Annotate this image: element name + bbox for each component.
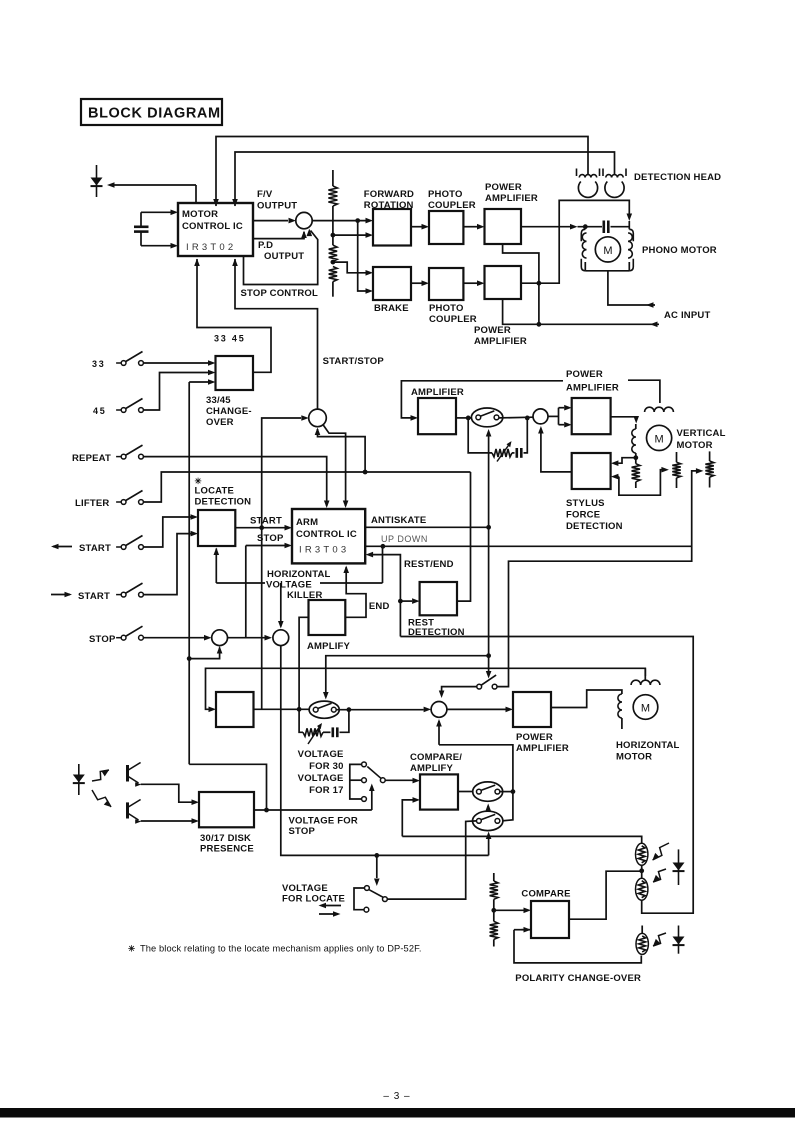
wire lifter riser bbox=[144, 472, 471, 502]
wire fwd-photo bbox=[411, 224, 429, 230]
label BRAKE bbox=[374, 303, 409, 314]
wire photo-pa1 bbox=[463, 224, 484, 230]
label PHOTO COUPLER 2 bbox=[429, 303, 477, 325]
wire PA1 bottom tap bbox=[503, 244, 539, 324]
33/45 change-over box bbox=[216, 356, 254, 390]
svg-text:END: END bbox=[369, 601, 390, 612]
switch START down bbox=[78, 583, 143, 602]
svg-text:✳: ✳ bbox=[128, 944, 136, 954]
wire brake-photo2 bbox=[411, 280, 429, 286]
label 30/17 DISK PRESENCE bbox=[200, 833, 254, 855]
wire PA1 to motor bbox=[521, 224, 602, 230]
svg-text:STOP CONTROL: STOP CONTROL bbox=[241, 288, 319, 299]
label POWER AMPLIFIER V bbox=[566, 369, 619, 394]
svg-text:BLOCK DIAGRAM: BLOCK DIAGRAM bbox=[88, 106, 221, 122]
svg-text:M: M bbox=[655, 433, 664, 445]
label POWER AMPLIFIER 1 bbox=[485, 182, 538, 204]
svg-text:PHOTO: PHOTO bbox=[429, 303, 464, 314]
label 33 45 bbox=[214, 334, 246, 344]
svg-text:CONTROL IC: CONTROL IC bbox=[182, 221, 243, 232]
junction photo chain bbox=[639, 865, 644, 880]
wire amplify input riser bbox=[299, 617, 308, 709]
label COMPARE/AMPLIFY bbox=[410, 752, 462, 774]
svg-text:33 45: 33 45 bbox=[214, 334, 246, 344]
wire detection-head B to IC bbox=[232, 152, 614, 207]
wire start riser to node bbox=[262, 415, 309, 528]
wire Q2 to disk box bbox=[141, 818, 199, 824]
label 33/45 CHANGE-OVER bbox=[206, 395, 252, 428]
wire vertical bus x189 bbox=[188, 382, 190, 764]
svg-text:POWER: POWER bbox=[566, 369, 603, 380]
wire antiskate to oval0 bbox=[323, 656, 489, 700]
svg-text:FORWARD: FORWARD bbox=[364, 189, 414, 200]
label VOLTAGE FOR 30 bbox=[298, 749, 344, 772]
wire compare2 out bbox=[569, 871, 642, 919]
30/17 disk presence box bbox=[199, 792, 254, 827]
wire SFD2 U path bbox=[611, 467, 669, 495]
svg-text:VOLTAGE FOR: VOLTAGE FOR bbox=[289, 816, 358, 827]
svg-text:ANTISKATE: ANTISKATE bbox=[371, 515, 426, 526]
summing node vertical bbox=[533, 409, 548, 424]
junction lifter/startstop bbox=[363, 470, 368, 475]
svg-text:IR3T02: IR3T02 bbox=[186, 242, 236, 253]
wire oval0 out bbox=[336, 707, 431, 713]
wire P.D output bbox=[253, 231, 307, 239]
phono motor M bbox=[595, 237, 620, 262]
photo resistor PC3 bbox=[636, 933, 648, 954]
svg-text:VOLTAGE: VOLTAGE bbox=[282, 883, 328, 894]
wire switchH bbox=[477, 675, 497, 689]
bottom black bar bbox=[0, 1108, 795, 1118]
vertical motor left coil bbox=[632, 424, 636, 458]
wire UP DOWN bbox=[365, 544, 692, 549]
detection head coil 2 bbox=[603, 169, 626, 198]
wire rest input bbox=[400, 598, 419, 604]
label UP DOWN bbox=[381, 534, 428, 544]
wire to oval2 bottom bbox=[486, 832, 492, 856]
svg-text:FORCE: FORCE bbox=[566, 510, 600, 521]
wire switchH right bbox=[497, 468, 703, 686]
selector lever bbox=[367, 767, 381, 779]
wire PC3 top stub bbox=[641, 926, 643, 934]
svg-text:F/V: F/V bbox=[257, 189, 273, 200]
label FORWARD ROTATION bbox=[364, 189, 414, 211]
wire IC left lower input bbox=[141, 243, 178, 249]
locate amplifier box bbox=[216, 692, 254, 727]
rest detection box bbox=[420, 582, 457, 615]
svg-text:REPEAT: REPEAT bbox=[72, 453, 111, 464]
compare box bbox=[531, 901, 569, 938]
power amplifier 1 box bbox=[485, 209, 522, 244]
wire bus to node1 bbox=[187, 646, 223, 661]
wire compare out bbox=[458, 791, 472, 793]
svg-text:IR3T03: IR3T03 bbox=[299, 545, 349, 556]
svg-text:STOP: STOP bbox=[89, 634, 116, 645]
resistor chain R1 bbox=[328, 170, 337, 297]
light arrow 4 bbox=[653, 869, 666, 882]
svg-text:DETECTION: DETECTION bbox=[566, 521, 623, 532]
summing node F/V bbox=[296, 212, 312, 228]
horizontal motor top coil bbox=[631, 668, 660, 685]
horizontal motor M bbox=[633, 695, 658, 720]
label STOP CONTROL bbox=[241, 288, 319, 299]
svg-text:P.D: P.D bbox=[258, 240, 273, 251]
svg-text:DETECTION HEAD: DETECTION HEAD bbox=[634, 172, 721, 183]
wire disk riser to bus bbox=[189, 764, 266, 810]
light arrow 1 bbox=[92, 770, 109, 781]
svg-text:AC INPUT: AC INPUT bbox=[664, 310, 710, 321]
svg-text:FOR 17: FOR 17 bbox=[309, 785, 343, 796]
label POWER AMPLIFIER 2 bbox=[474, 325, 527, 347]
label PHOTO COUPLER 1 bbox=[428, 189, 476, 211]
oval switch S0 bbox=[309, 701, 339, 718]
wire detection-head A to IC bbox=[213, 137, 588, 207]
oval switch S3 bbox=[471, 408, 502, 427]
wire oval1-oval2 right link bbox=[502, 792, 513, 821]
svg-text:COMPARE: COMPARE bbox=[521, 889, 570, 900]
LED D2 bbox=[73, 764, 85, 795]
label LOCATE DETECTION bbox=[195, 476, 252, 508]
label VERTICAL MOTOR bbox=[677, 428, 726, 451]
svg-text:LOCATE: LOCATE bbox=[195, 486, 235, 497]
wire STOP into arm IC bbox=[246, 543, 292, 549]
arm control IC text bbox=[296, 517, 357, 556]
svg-text:POWER: POWER bbox=[474, 325, 511, 336]
horizontal motor left coil bbox=[618, 694, 622, 729]
photo coupler 2 box bbox=[429, 268, 463, 300]
label AMPLIFIER bbox=[411, 387, 464, 398]
wire smallbox out bbox=[254, 707, 313, 712]
vertical motor top coil bbox=[645, 407, 674, 412]
label AC INPUT bbox=[664, 310, 710, 321]
svg-text:VOLTAGE: VOLTAGE bbox=[298, 773, 344, 784]
vertical motor M bbox=[647, 425, 672, 450]
wire rest-end into arm IC bbox=[366, 552, 403, 637]
selector bracket bbox=[350, 764, 362, 799]
svg-text:MOTOR: MOTOR bbox=[677, 440, 713, 451]
wire photo2-pa2 bbox=[463, 280, 484, 286]
phototransistor Q1 bbox=[128, 763, 142, 787]
label VOLTAGE FOR 17 bbox=[298, 773, 344, 796]
wire 33-45 to IC bbox=[194, 259, 271, 373]
wire coil to SFD1 bbox=[611, 455, 638, 466]
wire locate common bbox=[387, 821, 476, 899]
svg-text:START/STOP: START/STOP bbox=[323, 356, 385, 367]
wire compare2 in2 bbox=[514, 927, 641, 963]
wire sumV to PA bbox=[548, 405, 572, 428]
svg-text:45: 45 bbox=[93, 406, 107, 416]
oval switch S2 bbox=[473, 811, 503, 830]
wire control stub ovals bbox=[485, 804, 491, 812]
wire stop riser bbox=[245, 546, 247, 638]
svg-text:PHONO MOTOR: PHONO MOTOR bbox=[642, 245, 717, 256]
arrow right START bbox=[51, 592, 72, 598]
wire rest out riser bbox=[457, 472, 471, 601]
wire amplify out END bbox=[343, 566, 366, 618]
svg-text:POLARITY CHANGE-OVER: POLARITY CHANGE-OVER bbox=[515, 973, 641, 984]
wire start2 to locate bbox=[144, 531, 199, 595]
svg-text:OVER: OVER bbox=[206, 417, 234, 428]
arrow locate left bbox=[319, 903, 342, 909]
diode D4 bbox=[673, 926, 685, 954]
svg-text:COUPLER: COUPLER bbox=[428, 200, 476, 211]
resistor R6 bbox=[672, 452, 680, 488]
power amplifier V box bbox=[572, 398, 611, 434]
wire disk to selector arrow bbox=[369, 784, 375, 811]
svg-text:COMPARE/: COMPARE/ bbox=[410, 752, 462, 763]
photo resistor PC2 bbox=[636, 878, 648, 900]
wire PA-H out bbox=[551, 690, 622, 708]
wire PA-V out bbox=[611, 416, 639, 424]
start-stop node circle bbox=[309, 409, 327, 427]
stylus force detection box bbox=[572, 453, 611, 489]
svg-text:LIFTER: LIFTER bbox=[75, 498, 109, 509]
switch LIFTER bbox=[75, 491, 143, 510]
phono motor frame bbox=[581, 221, 633, 271]
svg-text:30/17 DISK: 30/17 DISK bbox=[200, 833, 251, 844]
wire sum bottom in bbox=[436, 719, 513, 792]
wire F/V output bbox=[253, 218, 296, 224]
svg-text:HORIZONTAL: HORIZONTAL bbox=[267, 569, 331, 580]
svg-text:AMPLIFIER: AMPLIFIER bbox=[474, 336, 527, 347]
wire to start-stop node bottom bbox=[315, 428, 365, 473]
locate detection box bbox=[198, 510, 235, 546]
VR damping network 0 bbox=[299, 709, 349, 744]
svg-text:COUPLER: COUPLER bbox=[429, 314, 477, 325]
wire compare in2 bbox=[402, 797, 420, 836]
svg-text:STOP: STOP bbox=[289, 826, 316, 837]
svg-text:ROTATION: ROTATION bbox=[364, 200, 414, 211]
junction pa2 bbox=[537, 281, 542, 286]
wire amplifier out bbox=[456, 417, 471, 419]
wire antiskate control line bbox=[486, 429, 492, 679]
svg-text:START: START bbox=[250, 516, 282, 527]
switch 45 bbox=[93, 399, 143, 417]
wire res to compare bbox=[494, 908, 531, 914]
resistor chain R10 bbox=[490, 873, 498, 947]
label F/V OUTPUT bbox=[257, 189, 297, 212]
svg-text:MOTOR: MOTOR bbox=[616, 752, 652, 763]
label POLARITY CHANGE-OVER bbox=[515, 973, 641, 984]
wire disk out bbox=[254, 808, 372, 813]
label REST/END bbox=[404, 559, 454, 570]
svg-text:ARM: ARM bbox=[296, 517, 318, 528]
mix node 1 bbox=[212, 630, 228, 646]
label REST DETECTION bbox=[408, 618, 465, 639]
svg-text:M: M bbox=[603, 245, 612, 257]
label P.D OUTPUT bbox=[258, 240, 304, 262]
svg-text:CONTROL IC: CONTROL IC bbox=[296, 529, 357, 540]
wire oval3 out bbox=[499, 416, 533, 419]
svg-text:AMPLIFIER: AMPLIFIER bbox=[566, 383, 619, 394]
diode D1 bbox=[91, 165, 103, 197]
wire switch45 to box bbox=[144, 370, 216, 410]
wire switch33 to box bbox=[144, 360, 216, 366]
svg-text:M: M bbox=[641, 703, 650, 715]
capacitor C2 bbox=[604, 221, 630, 234]
forward rotation box bbox=[373, 209, 411, 246]
svg-text:POWER: POWER bbox=[516, 732, 553, 743]
wire photo chain bottom bbox=[400, 637, 693, 914]
page number bbox=[383, 1091, 410, 1102]
selector contacts bbox=[362, 762, 386, 801]
svg-text:VOLTAGE: VOLTAGE bbox=[266, 580, 312, 591]
switch 33 bbox=[92, 352, 143, 370]
detection head coil 1 bbox=[577, 169, 600, 198]
label HORIZONTAL MOTOR bbox=[616, 740, 680, 763]
svg-text:CHANGE-: CHANGE- bbox=[206, 406, 252, 417]
node1 to node2 wire bbox=[228, 635, 272, 641]
power amplifier H box bbox=[513, 692, 551, 727]
svg-text:The block relating to the loca: The block relating to the locate mechani… bbox=[140, 944, 422, 954]
wire killer line bbox=[216, 546, 382, 583]
summing node horizontal bbox=[431, 702, 447, 718]
wire start riser down bbox=[261, 528, 263, 710]
capacitor C1 bbox=[134, 212, 149, 245]
label HORIZONTAL VOLTAGE KILLER bbox=[266, 569, 331, 601]
oval switch S1 bbox=[473, 782, 503, 801]
photo resistor PC1 bbox=[636, 843, 648, 865]
wire Q1 to disk box bbox=[141, 784, 199, 805]
label DETECTION HEAD bbox=[634, 172, 721, 183]
svg-text:START: START bbox=[79, 543, 111, 554]
label VOLTAGE FOR STOP bbox=[289, 816, 358, 838]
brake box bbox=[373, 267, 411, 300]
photo coupler 1 box bbox=[429, 211, 463, 244]
locate switch bbox=[354, 886, 387, 913]
svg-text:START: START bbox=[78, 591, 110, 602]
svg-text:– 3 –: – 3 – bbox=[383, 1091, 410, 1102]
svg-text:AMPLIFIER: AMPLIFIER bbox=[516, 743, 569, 754]
wire sumV bottom in bbox=[538, 426, 572, 472]
wire PA2 bottom tap bbox=[503, 299, 539, 324]
arm control IC IR3T03 box bbox=[292, 509, 365, 563]
wire diode to IC top bbox=[107, 182, 196, 203]
wire selector common to compare bbox=[385, 778, 420, 784]
wire ANTISKATE bbox=[365, 525, 491, 530]
svg-text:OUTPUT: OUTPUT bbox=[257, 201, 297, 212]
motor control IC IR3T02 box bbox=[178, 203, 253, 256]
resistor R7 bbox=[705, 451, 713, 487]
svg-text:MOTOR: MOTOR bbox=[182, 209, 218, 220]
label AMPLIFY bbox=[307, 641, 351, 652]
wire locate bottom killer bbox=[214, 548, 220, 584]
wire F/V to forward bbox=[312, 218, 373, 224]
phono motor right winding bbox=[628, 233, 632, 258]
label ANTISKATE bbox=[371, 515, 426, 526]
svg-text:AMPLIFY: AMPLIFY bbox=[307, 641, 351, 652]
resistor R5 bbox=[632, 458, 640, 488]
wire disk presence to changeover bbox=[189, 379, 215, 385]
wire stop to node1 bbox=[144, 635, 212, 641]
svg-text:AMPLIFY: AMPLIFY bbox=[410, 763, 454, 774]
footnote DP-52F bbox=[128, 944, 422, 954]
svg-text:BRAKE: BRAKE bbox=[374, 303, 409, 314]
arrow locate right bbox=[319, 911, 341, 917]
amplifier box bbox=[418, 398, 456, 434]
wire stop control loop bbox=[244, 229, 318, 285]
wire node2 down bbox=[281, 646, 489, 856]
switch STOP bbox=[89, 626, 143, 645]
wire switchH left bbox=[439, 687, 477, 698]
label POWER AMPLIFIER H bbox=[516, 732, 569, 754]
wire node out to arm IC bbox=[323, 424, 349, 508]
wire IC to start-stop node bbox=[232, 259, 317, 410]
label PHONO MOTOR bbox=[642, 245, 717, 256]
wire repeat to arm IC bbox=[144, 457, 330, 508]
svg-text:PHOTO: PHOTO bbox=[428, 189, 463, 200]
svg-text:POWER: POWER bbox=[485, 182, 522, 193]
light arrow 3 bbox=[653, 843, 670, 860]
label STYLUS FORCE DETECTION bbox=[566, 498, 623, 532]
label START small bbox=[250, 516, 282, 527]
svg-text:PRESENCE: PRESENCE bbox=[200, 844, 254, 855]
wire sum to power amp H bbox=[447, 707, 513, 713]
wire oval1 out bbox=[500, 789, 516, 794]
amplify box bbox=[309, 600, 346, 635]
wire IC left upper input bbox=[141, 210, 178, 216]
junction locate branch bbox=[374, 853, 379, 858]
VR damping network 3 bbox=[466, 416, 530, 462]
phototransistor Q2 bbox=[128, 800, 142, 824]
wire AC line 2 bbox=[608, 271, 655, 308]
wire horizontal motor sense bbox=[206, 668, 646, 712]
arrow left START bbox=[51, 544, 72, 550]
switch REPEAT bbox=[72, 445, 143, 464]
wire chain tap to brake1 bbox=[333, 262, 373, 276]
wire feedback to amplifier bbox=[401, 381, 563, 421]
wire chain to forward2 bbox=[333, 232, 373, 238]
svg-text:STYLUS: STYLUS bbox=[566, 498, 605, 509]
switch START up bbox=[79, 536, 143, 555]
svg-text:HORIZONTAL: HORIZONTAL bbox=[616, 740, 680, 751]
svg-text:VERTICAL: VERTICAL bbox=[677, 428, 726, 439]
svg-text:OUTPUT: OUTPUT bbox=[264, 251, 304, 262]
wire start1 to locate bbox=[144, 514, 199, 547]
svg-text:REST/END: REST/END bbox=[404, 559, 454, 570]
svg-text:STOP: STOP bbox=[257, 533, 284, 544]
svg-text:33: 33 bbox=[92, 359, 106, 369]
wire AC line 1 bbox=[537, 322, 660, 328]
wire branch to locate switch bbox=[374, 855, 380, 886]
svg-text:33/45: 33/45 bbox=[206, 395, 231, 406]
label END bbox=[369, 601, 390, 612]
wire compare bus bbox=[402, 836, 641, 843]
motor control IC text bbox=[182, 209, 243, 253]
wire PA2 up to motor bbox=[521, 200, 632, 283]
mix node 2 bbox=[273, 630, 289, 646]
label START/STOP bbox=[323, 356, 385, 367]
svg-text:UP DOWN: UP DOWN bbox=[381, 534, 428, 544]
compare/amplify box bbox=[420, 774, 458, 809]
svg-text:AMPLIFIER: AMPLIFIER bbox=[485, 193, 538, 204]
light arrow 2 bbox=[92, 790, 111, 807]
phono motor left winding bbox=[582, 233, 586, 258]
label STOP small bbox=[257, 533, 284, 544]
svg-text:VOLTAGE: VOLTAGE bbox=[298, 749, 344, 760]
wire feedback right segment bbox=[628, 380, 660, 403]
wire bus to brake2 bbox=[358, 221, 373, 294]
wire killer to node2 bbox=[278, 583, 284, 629]
light arrow 5 bbox=[653, 933, 666, 946]
svg-text:✳: ✳ bbox=[195, 476, 203, 486]
svg-text:FOR LOCATE: FOR LOCATE bbox=[282, 894, 345, 905]
svg-text:FOR 30: FOR 30 bbox=[309, 761, 343, 772]
svg-text:DETECTION: DETECTION bbox=[195, 497, 252, 508]
diode D3 bbox=[673, 849, 685, 885]
wire locate out START bbox=[235, 525, 292, 531]
title box BLOCK DIAGRAM bbox=[81, 99, 222, 125]
